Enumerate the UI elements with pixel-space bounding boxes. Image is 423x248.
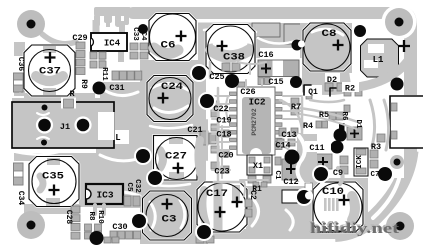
svg-text:hifidiy.net: hifidiy.net <box>310 221 399 237</box>
svg-text:C35: C35 <box>42 172 64 183</box>
svg-text:PCM2702: PCM2702 <box>251 108 258 135</box>
svg-text:C14: C14 <box>275 141 290 151</box>
svg-text:C9: C9 <box>333 168 343 178</box>
svg-text:C29: C29 <box>72 33 87 43</box>
svg-text:C33: C33 <box>131 27 139 41</box>
svg-text:R: R <box>69 89 75 99</box>
svg-text:C3: C3 <box>162 215 177 226</box>
svg-text:C23: C23 <box>214 167 229 177</box>
svg-text:C7: C7 <box>370 171 379 179</box>
svg-text:R2: R2 <box>345 84 355 94</box>
svg-text:C15: C15 <box>268 77 283 87</box>
svg-text:C13: C13 <box>281 130 296 140</box>
svg-text:C21: C21 <box>187 125 202 135</box>
svg-text:C4: C4 <box>139 31 147 41</box>
svg-text:C32: C32 <box>133 179 141 193</box>
svg-text:R4: R4 <box>303 121 313 131</box>
svg-text:C11: C11 <box>309 143 324 153</box>
svg-text:R8: R8 <box>87 211 95 221</box>
svg-text:R10: R10 <box>96 210 104 224</box>
svg-text:C10: C10 <box>322 187 344 198</box>
svg-text:C28: C28 <box>64 210 73 225</box>
svg-text:C27: C27 <box>165 152 187 163</box>
svg-text:C31: C31 <box>109 83 124 93</box>
svg-text:R9: R9 <box>79 79 88 89</box>
svg-text:D1: D1 <box>354 119 362 129</box>
svg-text:IC4: IC4 <box>104 39 121 49</box>
svg-text:R6: R6 <box>340 111 348 121</box>
svg-text:C26: C26 <box>240 87 255 97</box>
svg-text:C8: C8 <box>322 29 337 40</box>
svg-text:C38: C38 <box>223 53 245 64</box>
svg-text:C36: C36 <box>16 57 25 72</box>
svg-text:C6: C6 <box>161 41 176 52</box>
svg-text:IC2: IC2 <box>248 97 265 108</box>
svg-text:R3: R3 <box>371 142 381 152</box>
svg-text:J1: J1 <box>60 122 70 132</box>
svg-text:L1: L1 <box>373 55 384 65</box>
svg-text:C20: C20 <box>218 151 233 161</box>
svg-text:C19: C19 <box>216 116 231 126</box>
svg-text:R7: R7 <box>291 102 301 112</box>
svg-text:C12: C12 <box>283 177 298 187</box>
svg-text:D2: D2 <box>327 75 337 85</box>
svg-text:C18: C18 <box>216 130 231 140</box>
svg-text:R5: R5 <box>319 110 329 120</box>
svg-text:ICK: ICK <box>356 155 364 169</box>
svg-text:C5: C5 <box>125 182 133 192</box>
svg-text:L: L <box>115 133 120 143</box>
svg-text:C34: C34 <box>16 191 25 206</box>
svg-text:C24: C24 <box>161 82 183 93</box>
svg-text:C22: C22 <box>213 104 228 114</box>
svg-text:Q1: Q1 <box>308 88 318 97</box>
svg-text:C25: C25 <box>209 72 224 82</box>
svg-text:X1: X1 <box>253 161 263 171</box>
svg-text:C2: C2 <box>248 190 257 200</box>
svg-text:R11: R11 <box>100 67 108 81</box>
svg-text:C30: C30 <box>112 222 127 232</box>
svg-text:C1: C1 <box>273 170 281 180</box>
svg-text:C17: C17 <box>206 189 228 200</box>
svg-text:C16: C16 <box>258 50 273 60</box>
svg-text:C37: C37 <box>39 67 61 78</box>
svg-text:IC3: IC3 <box>96 190 113 201</box>
